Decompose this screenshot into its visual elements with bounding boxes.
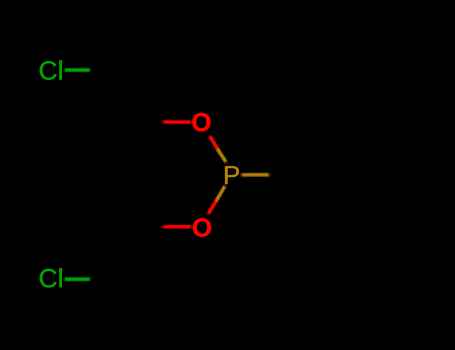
bond Cl2-C1' (green half-bond) <box>65 277 89 282</box>
bond Cl1-C1 (green half-bond) <box>65 68 89 73</box>
bond P-O2 upper half (orange) <box>216 187 225 202</box>
atom label Cl1 (top chlorine, green) <box>40 60 62 79</box>
bond P-Cipso to phenyl (orange half-bond) <box>242 172 268 177</box>
bond P-O2 lower half (red) <box>209 201 217 213</box>
atom label O1 (top oxygen, red) <box>192 113 210 131</box>
bond O1-P upper half (red) <box>210 137 218 150</box>
atom label Cl2 (bottom chlorine, green) <box>40 268 62 287</box>
atom label O2 (bottom oxygen, red) <box>193 218 211 236</box>
bond O1-P lower half (orange) <box>218 149 226 162</box>
bond C2-O1 (red half-bond) <box>164 120 191 125</box>
atom label P (phosphorus, dark goldenrod) <box>225 166 239 184</box>
bond C2'-O2 (red half-bond) <box>164 224 191 229</box>
